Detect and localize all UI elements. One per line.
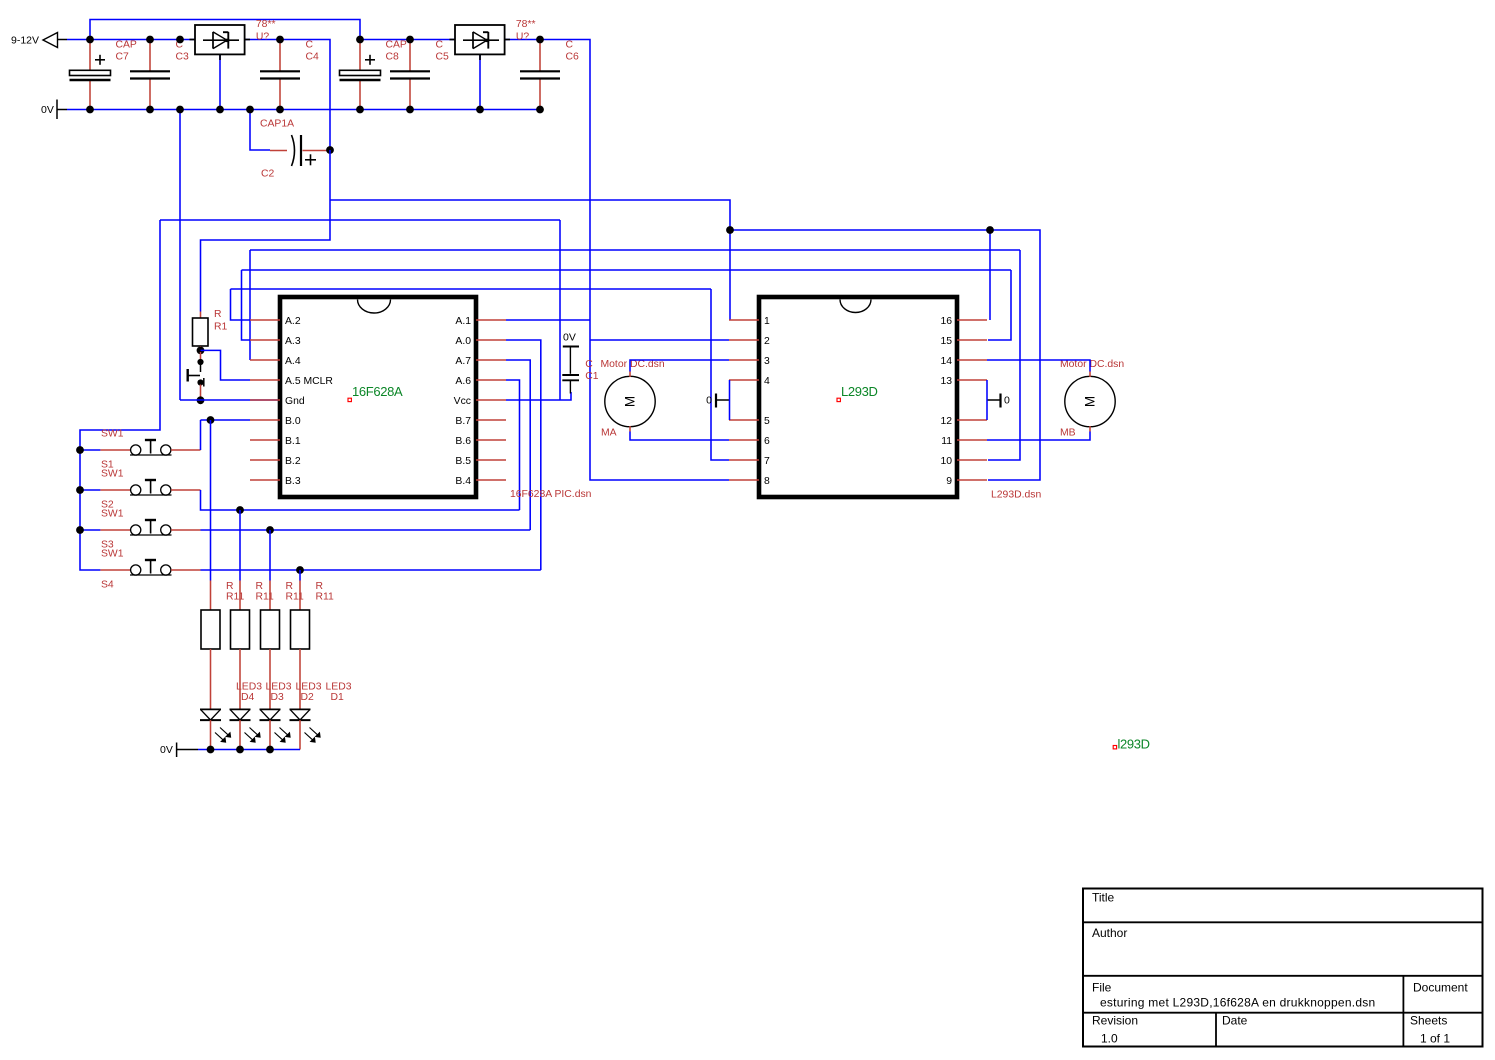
pin A.2 — [250, 316, 301, 327]
pin 5 — [729, 416, 770, 427]
pin B.7 — [455, 416, 506, 427]
pin 8 — [729, 476, 770, 487]
wire pin2 — [590, 339, 729, 341]
svg-text:Motor DC.dsn: Motor DC.dsn — [601, 359, 665, 370]
svg-text:1.0: 1.0 — [1101, 1032, 1118, 1046]
wire MA- to pin6 — [630, 432, 729, 441]
svg-text:C3: C3 — [176, 51, 190, 62]
wire S3 to A.7 — [201, 529, 531, 531]
svg-text:6: 6 — [764, 436, 770, 447]
wire A.6 to S2 — [506, 380, 520, 510]
svg-text:R: R — [286, 581, 294, 592]
svg-text:A.5 MCLR: A.5 MCLR — [285, 376, 333, 387]
svg-text:esturing met L293D,16f628A en: esturing met L293D,16f628A en drukknoppe… — [1100, 996, 1375, 1010]
svg-text:C: C — [306, 40, 314, 51]
LED D3 — [230, 649, 261, 750]
wire S1 to B.0 — [200, 420, 202, 450]
wire Vcc to C1 — [506, 392, 571, 400]
pin B.4 — [455, 476, 506, 487]
svg-text:Date: Date — [1222, 1014, 1248, 1028]
junction 0V rail x=150 — [146, 106, 154, 114]
svg-text:B.0: B.0 — [285, 416, 301, 427]
svg-text:L293D.dsn: L293D.dsn — [991, 490, 1041, 501]
svg-text:A.0: A.0 — [455, 336, 471, 347]
junction top rail x=150 — [146, 36, 154, 44]
svg-text:C2: C2 — [261, 169, 275, 180]
svg-text:D4: D4 — [241, 692, 255, 703]
junction 0V rail x=480 — [476, 106, 484, 114]
wire Gnd pin — [180, 399, 280, 401]
svg-text:78**: 78** — [256, 19, 276, 30]
svg-text:CAP1A: CAP1A — [260, 119, 294, 130]
wire riser pin7 — [711, 289, 729, 460]
pin Vcc — [454, 396, 506, 407]
junction top rail x=360 — [356, 36, 364, 44]
svg-text:A.1: A.1 — [455, 316, 471, 327]
svg-text:MB: MB — [1060, 428, 1076, 439]
svg-text:CAP: CAP — [386, 40, 407, 51]
pin 12 — [940, 416, 987, 427]
svg-text:7: 7 — [764, 456, 770, 467]
svg-text:10: 10 — [940, 456, 952, 467]
switch S4 SW1 — [100, 560, 200, 575]
wire A.2 to pin7 — [231, 288, 712, 290]
svg-text:78**: 78** — [516, 19, 536, 30]
pin 4 — [729, 376, 770, 387]
svg-text:0: 0 — [706, 395, 712, 407]
pin Gnd — [250, 396, 305, 407]
svg-text:A.2: A.2 — [285, 316, 301, 327]
svg-text:C1: C1 — [585, 371, 599, 382]
wire S2 to A.6 — [201, 490, 520, 510]
svg-text:U?: U? — [256, 31, 270, 42]
wire U2 input rail — [360, 39, 455, 41]
wire 9-12V rail — [67, 39, 195, 41]
svg-text:3: 3 — [764, 356, 770, 367]
pin 14 — [940, 356, 987, 367]
wire U2 gnd — [479, 54, 481, 110]
wire to pin9 — [988, 230, 1040, 480]
svg-text:B.4: B.4 — [455, 476, 471, 487]
wire bypass 9-12V to U2 input — [90, 20, 360, 40]
wire Vcc riser — [559, 220, 561, 400]
svg-text:12: 12 — [940, 416, 952, 427]
wire LED 0V rail — [198, 749, 300, 751]
svg-text:R: R — [226, 581, 234, 592]
switch S1 SW1 — [80, 440, 201, 455]
svg-text:B.2: B.2 — [285, 456, 301, 467]
regulator U2 78** — [450, 25, 511, 60]
wire A.3 to pin15 — [242, 269, 1012, 271]
svg-text:C: C — [436, 40, 444, 51]
svg-text:C7: C7 — [116, 51, 130, 62]
svg-text:1: 1 — [764, 316, 770, 327]
svg-text:2: 2 — [764, 336, 770, 347]
regulator U1 78** — [190, 25, 251, 60]
junction 0V rail x=220 — [216, 106, 224, 114]
svg-text:Vcc: Vcc — [454, 396, 471, 407]
capacitor C8 (polarized) — [340, 40, 381, 110]
svg-text:A.7: A.7 — [455, 356, 471, 367]
junction top rail x=180 — [176, 36, 184, 44]
pin B.2 — [250, 456, 301, 467]
junction 0V rail x=280 — [276, 106, 284, 114]
svg-text:R: R — [214, 309, 222, 320]
svg-text:C8: C8 — [386, 51, 400, 62]
switch MCLR pushbutton — [188, 352, 204, 398]
wire C2 left lead — [250, 110, 270, 151]
svg-text:R11: R11 — [226, 592, 245, 603]
junction +5V node — [726, 226, 734, 234]
svg-text:L293D: L293D — [841, 384, 878, 399]
capacitor C3 — [130, 40, 170, 110]
pin 3 — [729, 356, 770, 367]
svg-text:0: 0 — [1004, 395, 1010, 407]
capacitor C7 (polarized) — [70, 40, 111, 110]
junction B.0 node — [207, 416, 215, 424]
svg-text:R: R — [316, 581, 324, 592]
pin B.5 — [455, 456, 506, 467]
junction 0V rail x=360 — [356, 106, 364, 114]
wire U1 output to node A — [245, 40, 331, 151]
resistor R11 (D2 chain) — [261, 530, 280, 649]
stray part value l293D — [1113, 746, 1116, 749]
wire U1 gnd — [219, 54, 221, 110]
wire MB- to pin11 — [987, 432, 1090, 441]
wire MA+ to pin3 — [630, 360, 729, 372]
pin 11 — [941, 436, 987, 447]
svg-text:l293D: l293D — [1118, 737, 1150, 752]
motor MB — [1065, 372, 1115, 432]
svg-text:M: M — [1083, 396, 1098, 407]
svg-text:Sheets: Sheets — [1410, 1014, 1447, 1028]
pin B.1 — [250, 436, 301, 447]
junction 0V rail x=250 — [246, 106, 254, 114]
svg-text:Title: Title — [1092, 891, 1115, 905]
pin 6 — [729, 436, 770, 447]
junction top rail x=410 — [406, 36, 414, 44]
svg-text:16: 16 — [940, 316, 952, 327]
svg-text:C4: C4 — [306, 51, 320, 62]
wire +5V to pin16 — [730, 229, 990, 231]
junction S2/R11 node — [236, 506, 244, 514]
wire riser pin10 — [988, 250, 1020, 460]
svg-text:D1: D1 — [331, 692, 345, 703]
svg-text:B.7: B.7 — [455, 416, 471, 427]
junction 0V rail x=410 — [406, 106, 414, 114]
capacitor C1 — [562, 375, 579, 394]
IC U? motor driver L293D — [759, 297, 957, 497]
pin B.3 — [250, 476, 301, 487]
pin A.1 — [455, 316, 506, 327]
svg-text:B.5: B.5 — [455, 456, 471, 467]
wire 0V rail — [67, 109, 540, 111]
wire B.0 — [201, 419, 251, 421]
capacitor C5 — [390, 40, 430, 110]
junction MCLR node — [197, 347, 205, 355]
title block — [1083, 889, 1483, 1047]
svg-text:M: M — [623, 396, 638, 407]
svg-text:D3: D3 — [271, 692, 285, 703]
svg-text:R11: R11 — [286, 592, 305, 603]
pin A.3 — [250, 336, 301, 347]
svg-text:Author: Author — [1092, 926, 1127, 940]
svg-text:Motor DC.dsn: Motor DC.dsn — [1060, 359, 1124, 370]
svg-text:SW1: SW1 — [101, 469, 124, 480]
wire to switch column — [80, 220, 160, 450]
svg-text:A.4: A.4 — [285, 356, 301, 367]
wire pins 13-12 gnd — [986, 380, 988, 420]
resistor R11 (D4 chain) — [201, 420, 220, 649]
wire MCLR to A.5 — [201, 350, 251, 380]
junction pin16 node — [986, 226, 994, 234]
switch S3 SW1 — [80, 520, 201, 535]
svg-text:C: C — [566, 40, 574, 51]
wire A.4 to pin10 — [250, 249, 1020, 251]
pin B.0 — [250, 416, 301, 427]
ground 0 (right of L293D) — [987, 394, 1001, 408]
svg-text:SW1: SW1 — [101, 549, 124, 560]
wire riser pin1 — [729, 230, 731, 320]
svg-text:D2: D2 — [301, 692, 315, 703]
LED D4 — [200, 649, 231, 750]
svg-text:A.6: A.6 — [455, 376, 471, 387]
svg-text:SW1: SW1 — [101, 429, 124, 440]
wire riser A.3 — [242, 270, 251, 340]
junction top rail x=540 — [536, 36, 544, 44]
ground 0 (left of L293D) — [716, 394, 730, 408]
wire U2 output / motor supply to pin8 — [505, 40, 730, 481]
svg-text:MA: MA — [601, 428, 617, 439]
svg-text:Document: Document — [1413, 981, 1468, 995]
svg-text:C6: C6 — [566, 51, 580, 62]
pin A.6 — [455, 376, 506, 387]
svg-text:R: R — [256, 581, 264, 592]
resistor R11 (D1 chain) — [291, 570, 310, 649]
wire node A to R1 — [201, 150, 331, 312]
pin 7 — [729, 456, 770, 467]
wire riser pin16 — [989, 230, 991, 320]
resistor R11 (D3 chain) — [231, 510, 250, 649]
pin 15 — [940, 336, 987, 347]
pin A.0 — [455, 336, 506, 347]
svg-text:SW1: SW1 — [101, 509, 124, 520]
svg-text:0V: 0V — [160, 744, 173, 756]
svg-text:C5: C5 — [436, 51, 450, 62]
svg-text:16F628A: 16F628A — [352, 384, 403, 399]
part name 16F628A — [348, 398, 351, 401]
svg-text:B.3: B.3 — [285, 476, 301, 487]
LED D1 — [290, 649, 321, 750]
junction S3/R11 node — [266, 526, 274, 534]
port 0V (C1) — [563, 332, 579, 374]
pin A.7 — [455, 356, 506, 367]
pin 1 — [729, 316, 770, 327]
junction 0V rail x=180 — [176, 106, 184, 114]
junction on Gnd wire — [197, 396, 205, 404]
pin A.4 — [250, 356, 301, 367]
wire A.1 to motor supply — [506, 319, 590, 321]
svg-text:B.1: B.1 — [285, 436, 301, 447]
wire switch common column — [80, 450, 100, 570]
svg-text:14: 14 — [940, 356, 952, 367]
port 0V (LED rail) — [160, 743, 198, 758]
svg-text:9: 9 — [946, 476, 952, 487]
pin 13 — [940, 376, 987, 387]
motor MA — [605, 372, 655, 432]
pin 16 — [940, 316, 987, 327]
wire node A to L293D — [330, 200, 730, 230]
svg-text:11: 11 — [941, 436, 952, 447]
LED D2 — [260, 649, 291, 750]
svg-text:C: C — [585, 359, 593, 370]
junction top rail x=280 — [276, 36, 284, 44]
wire pins 4-5 gnd — [729, 380, 731, 420]
resistor R1 — [193, 312, 209, 351]
svg-text:16F628A PIC.dsn: 16F628A PIC.dsn — [510, 489, 592, 500]
pin 9 — [946, 476, 987, 487]
capacitor C4 — [260, 40, 300, 110]
svg-text:B.6: B.6 — [455, 436, 471, 447]
junction 0V rail x=90 — [86, 106, 94, 114]
svg-text:LED3: LED3 — [326, 682, 352, 693]
pin 2 — [729, 336, 770, 347]
junction top rail x=90 — [86, 36, 94, 44]
junction 0V rail x=540 — [536, 106, 544, 114]
svg-text:0V: 0V — [563, 332, 576, 344]
port 9-12V — [11, 33, 67, 48]
wire 0V to PIC Gnd — [179, 110, 181, 401]
wire riser pin15 — [988, 270, 1011, 340]
wire MB+ to pin14 — [987, 360, 1090, 372]
svg-text:R11: R11 — [316, 592, 335, 603]
switch S2 SW1 — [80, 480, 201, 495]
svg-text:A.3: A.3 — [285, 336, 301, 347]
svg-text:4: 4 — [764, 376, 770, 387]
capacitor C6 — [520, 40, 560, 110]
pin B.6 — [455, 436, 506, 447]
svg-text:R1: R1 — [214, 322, 228, 333]
svg-text:15: 15 — [940, 336, 952, 347]
port 0V (top rail) — [41, 100, 67, 120]
svg-text:5: 5 — [764, 416, 770, 427]
svg-text:R11: R11 — [256, 592, 275, 603]
junction S4/R11 node — [296, 566, 304, 574]
pin A.5 MCLR — [250, 376, 333, 387]
pin 10 — [940, 456, 987, 467]
svg-text:Revision: Revision — [1092, 1014, 1138, 1028]
wire riser A.2 — [231, 289, 251, 320]
wire A.0 to S4 — [506, 340, 541, 570]
svg-text:13: 13 — [940, 376, 952, 387]
svg-text:Gnd: Gnd — [285, 396, 305, 407]
wire A.7 to S3 — [506, 360, 530, 530]
wire Vcc distribution — [160, 219, 560, 221]
part name L293D — [837, 398, 840, 401]
wire riser A.4 — [249, 250, 251, 360]
svg-text:9-12V: 9-12V — [11, 35, 39, 47]
svg-text:0V: 0V — [41, 104, 54, 116]
svg-text:U?: U? — [516, 31, 530, 42]
wire S4 to A.0 — [201, 569, 541, 571]
svg-text:File: File — [1092, 981, 1112, 995]
svg-text:1 of 1: 1 of 1 — [1420, 1032, 1450, 1046]
svg-text:S4: S4 — [101, 580, 114, 591]
capacitor C2 (CAP1A) — [270, 135, 330, 166]
svg-text:8: 8 — [764, 476, 770, 487]
junction node A — [326, 146, 334, 154]
IC U? microcontroller 16F628A — [280, 297, 476, 497]
svg-text:CAP: CAP — [116, 40, 137, 51]
